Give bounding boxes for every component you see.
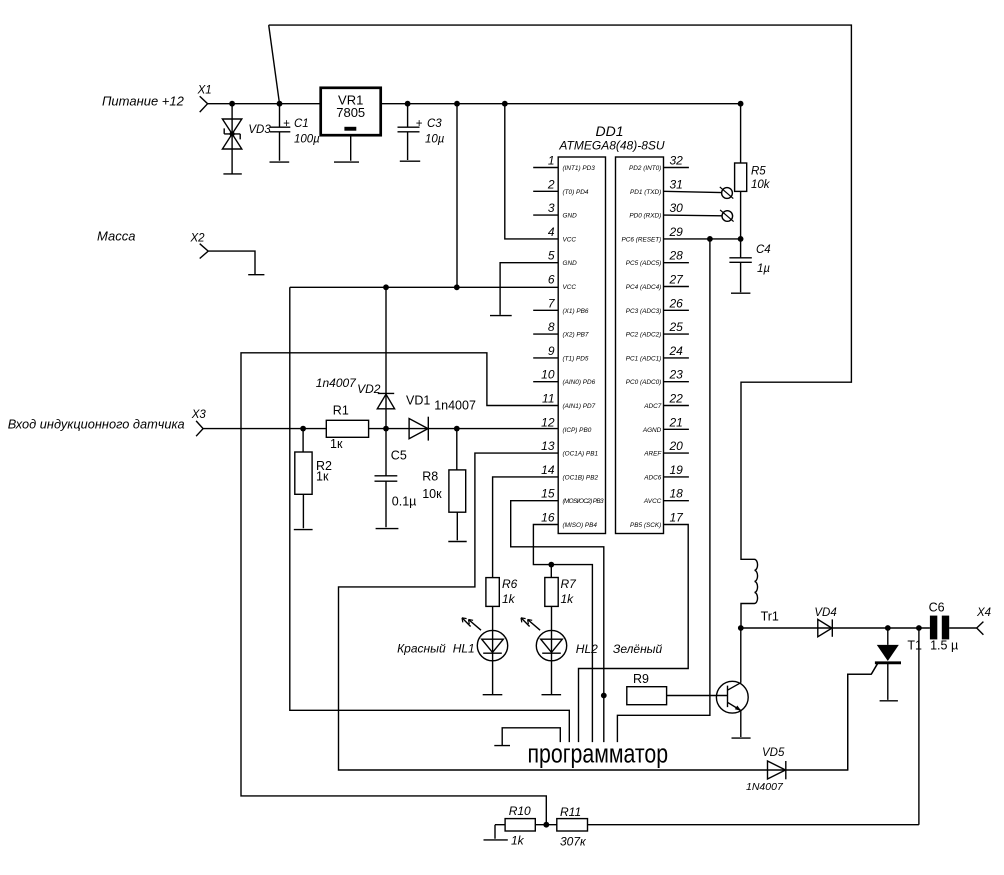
svg-text:Красный: Красный xyxy=(397,642,446,656)
svg-text:1к: 1к xyxy=(316,470,329,484)
svg-text:ADC6: ADC6 xyxy=(643,474,661,481)
svg-text:11: 11 xyxy=(542,392,554,406)
svg-text:1: 1 xyxy=(548,154,555,168)
svg-text:10k: 10k xyxy=(751,179,771,191)
svg-text:Tr1: Tr1 xyxy=(761,610,779,624)
svg-text:1n4007: 1n4007 xyxy=(434,399,476,413)
svg-text:10: 10 xyxy=(541,368,555,382)
svg-text:PC1 (ADC1): PC1 (ADC1) xyxy=(626,355,662,362)
svg-text:1N4007: 1N4007 xyxy=(746,781,784,793)
svg-text:Зелёный: Зелёный xyxy=(613,642,663,656)
svg-text:(T0) PD4: (T0) PD4 xyxy=(563,189,589,196)
svg-text:R11: R11 xyxy=(560,805,581,819)
svg-text:R9: R9 xyxy=(633,672,649,686)
svg-text:22: 22 xyxy=(669,392,684,406)
svg-text:HL2: HL2 xyxy=(576,642,598,656)
svg-text:T1: T1 xyxy=(907,639,922,653)
svg-text:VCC: VCC xyxy=(563,236,577,243)
svg-text:(MISO) PB4: (MISO) PB4 xyxy=(563,522,598,529)
svg-text:PC0 (ADC0): PC0 (ADC0) xyxy=(626,379,662,386)
svg-text:Масса: Масса xyxy=(97,228,135,243)
svg-text:X4: X4 xyxy=(976,607,991,619)
svg-text:1k: 1k xyxy=(511,834,525,848)
svg-text:PC6 (RESET): PC6 (RESET) xyxy=(622,236,662,243)
svg-text:100µ: 100µ xyxy=(294,134,320,146)
svg-text:VD4: VD4 xyxy=(814,607,836,619)
svg-text:29: 29 xyxy=(669,225,684,239)
svg-text:+: + xyxy=(416,118,423,130)
svg-text:R1: R1 xyxy=(333,404,349,418)
svg-text:8: 8 xyxy=(548,320,555,334)
svg-text:C5: C5 xyxy=(391,449,407,463)
svg-text:32: 32 xyxy=(670,154,684,168)
svg-text:0.1µ: 0.1µ xyxy=(392,495,417,509)
svg-text:31: 31 xyxy=(670,177,683,191)
svg-text:(AIN0) PD6: (AIN0) PD6 xyxy=(563,379,596,386)
svg-text:(ICP) PB0: (ICP) PB0 xyxy=(563,427,592,434)
svg-text:VD2: VD2 xyxy=(357,382,381,396)
svg-text:AREF: AREF xyxy=(643,451,662,458)
svg-text:10к: 10к xyxy=(422,487,442,501)
svg-text:PD2 (INT0): PD2 (INT0) xyxy=(629,165,661,172)
svg-text:4: 4 xyxy=(548,225,555,239)
svg-text:(AIN1) PD7: (AIN1) PD7 xyxy=(563,403,596,410)
svg-text:PC5 (ADC5): PC5 (ADC5) xyxy=(626,260,662,267)
svg-text:9: 9 xyxy=(548,344,555,358)
svg-text:15: 15 xyxy=(541,487,555,501)
svg-text:PC4 (ADC4): PC4 (ADC4) xyxy=(626,284,662,291)
svg-text:C6: C6 xyxy=(929,601,945,615)
svg-text:X1: X1 xyxy=(197,85,212,97)
svg-text:(MOSI/OC2) PB3: (MOSI/OC2) PB3 xyxy=(563,498,604,505)
svg-text:(OC1B) PB2: (OC1B) PB2 xyxy=(563,474,599,481)
svg-text:1k: 1k xyxy=(561,592,575,606)
svg-text:VCC: VCC xyxy=(563,284,577,291)
svg-text:AGND: AGND xyxy=(642,427,662,434)
svg-text:(OC1A) PB1: (OC1A) PB1 xyxy=(563,451,599,458)
svg-text:VD3: VD3 xyxy=(248,124,271,136)
svg-text:PD0 (RXD): PD0 (RXD) xyxy=(629,213,661,220)
svg-text:+: + xyxy=(283,118,290,130)
svg-text:R6: R6 xyxy=(502,577,518,591)
svg-text:24: 24 xyxy=(669,344,684,358)
svg-text:R7: R7 xyxy=(561,577,578,591)
svg-text:20: 20 xyxy=(669,439,684,453)
svg-text:X3: X3 xyxy=(191,409,207,421)
svg-text:R5: R5 xyxy=(751,166,766,178)
svg-text:Вход индукционного датчика: Вход индукционного датчика xyxy=(8,417,185,432)
svg-text:AVCC: AVCC xyxy=(643,498,662,505)
svg-text:26: 26 xyxy=(669,296,684,310)
svg-text:GND: GND xyxy=(563,260,578,267)
svg-text:30: 30 xyxy=(670,201,684,215)
svg-text:2: 2 xyxy=(547,177,555,191)
svg-text:1k: 1k xyxy=(502,592,516,606)
svg-text:(INT1) PD3: (INT1) PD3 xyxy=(563,165,596,172)
svg-text:10µ: 10µ xyxy=(425,134,445,146)
svg-text:C4: C4 xyxy=(756,244,771,256)
svg-text:HL1: HL1 xyxy=(453,642,475,656)
svg-text:7805: 7805 xyxy=(336,105,365,120)
svg-text:ATMEGA8(48)-8SU: ATMEGA8(48)-8SU xyxy=(558,139,664,153)
svg-text:28: 28 xyxy=(669,249,684,263)
svg-text:27: 27 xyxy=(669,273,685,287)
svg-text:PC2 (ADC2): PC2 (ADC2) xyxy=(626,332,662,339)
svg-text:17: 17 xyxy=(670,511,685,525)
svg-text:VD5: VD5 xyxy=(762,747,785,759)
svg-text:PC3 (ADC3): PC3 (ADC3) xyxy=(626,308,662,315)
svg-text:23: 23 xyxy=(669,368,684,382)
svg-text:13: 13 xyxy=(541,439,555,453)
svg-text:5: 5 xyxy=(548,249,555,263)
svg-text:R8: R8 xyxy=(422,470,438,484)
svg-text:16: 16 xyxy=(541,511,555,525)
svg-text:X2: X2 xyxy=(190,233,206,245)
svg-text:C3: C3 xyxy=(427,118,442,130)
svg-text:14: 14 xyxy=(541,463,555,477)
svg-text:PB5 (SCK): PB5 (SCK) xyxy=(630,522,661,529)
svg-text:307к: 307к xyxy=(560,835,587,849)
svg-text:19: 19 xyxy=(670,463,684,477)
svg-text:21: 21 xyxy=(669,415,683,429)
svg-text:Питание +12: Питание +12 xyxy=(102,94,185,109)
svg-text:DD1: DD1 xyxy=(595,123,623,139)
svg-text:R10: R10 xyxy=(509,804,531,818)
svg-text:C1: C1 xyxy=(294,118,309,130)
svg-text:1n4007: 1n4007 xyxy=(316,376,357,390)
svg-text:1µ: 1µ xyxy=(757,263,770,275)
svg-text:(T1) PD5: (T1) PD5 xyxy=(563,355,589,362)
svg-text:ADC7: ADC7 xyxy=(643,403,661,410)
svg-text:GND: GND xyxy=(563,213,578,220)
svg-text:25: 25 xyxy=(669,320,684,334)
svg-text:1.5 µ: 1.5 µ xyxy=(930,639,958,653)
svg-text:(X2) PB7: (X2) PB7 xyxy=(563,332,589,339)
svg-text:программатор: программатор xyxy=(528,740,669,770)
svg-text:PD1 (TXD): PD1 (TXD) xyxy=(630,189,661,196)
svg-text:6: 6 xyxy=(548,273,555,287)
svg-text:VD1: VD1 xyxy=(406,394,430,408)
svg-text:12: 12 xyxy=(541,415,555,429)
svg-text:3: 3 xyxy=(548,201,555,215)
svg-text:1к: 1к xyxy=(330,437,343,451)
svg-text:(X1) PB6: (X1) PB6 xyxy=(563,308,589,315)
svg-text:18: 18 xyxy=(670,487,684,501)
